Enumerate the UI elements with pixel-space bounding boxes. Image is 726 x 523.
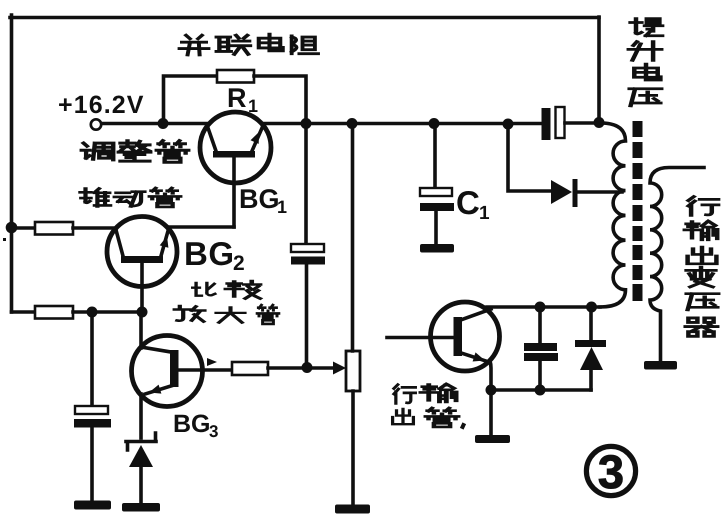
label parallel resistor 并联电阻 — [180, 34, 318, 55]
node junction rail x434 — [429, 118, 440, 129]
wire line output emitter — [490, 361, 491, 390]
wire R1 left branch — [164, 76, 218, 123]
node junction rail/R1 left — [158, 118, 169, 129]
wire rail right of coupling cap — [565, 121, 601, 125]
node junction x599 rail — [594, 117, 605, 128]
node junction rail x352 — [347, 118, 358, 129]
wire BG3 base to resistor — [202, 368, 232, 372]
wire +16.2V rail left — [102, 122, 209, 126]
transformer secondary winding — [650, 168, 704, 363]
node junction x307 — [302, 362, 313, 373]
stray mark comma after label — [460, 422, 466, 429]
svg-text:1: 1 — [248, 96, 258, 116]
label line output tube 行输出管 — [393, 384, 459, 427]
potentiometer arrow — [333, 362, 346, 375]
wire capacitor down to junction — [305, 264, 309, 367]
wire zener to ground — [139, 467, 143, 504]
transistor BG2 driver tube — [107, 217, 177, 313]
wire C1 branch down — [433, 123, 437, 188]
transformer core dashes — [633, 121, 643, 301]
diode damper — [575, 307, 606, 390]
wire row1 left — [12, 226, 36, 230]
wire R1 right branch — [254, 76, 306, 123]
wire BG1 base to BG2 collector — [168, 225, 234, 229]
svg-text:BG: BG — [173, 410, 211, 438]
svg-text:BG: BG — [184, 235, 235, 272]
ground pot — [335, 505, 370, 514]
svg-text:1: 1 — [479, 203, 490, 224]
wire row1 to BG2 — [73, 226, 116, 230]
diode zener BG3 emitter — [126, 433, 156, 467]
potentiometer — [346, 351, 360, 391]
wire main rail middle — [262, 122, 542, 126]
svg-text:3: 3 — [209, 422, 218, 441]
wire C1 to ground — [434, 211, 438, 245]
capacitor electrolytic left — [74, 406, 111, 428]
label adjustment tube 调整管 — [82, 141, 189, 163]
transistor BG3 comparison amplifier — [132, 336, 203, 407]
wire primary bottom lead to collector row — [487, 305, 600, 309]
wire row2 — [73, 310, 142, 314]
wire BG3 emitter down — [139, 394, 143, 438]
label line output transformer 行输出变压器 — [685, 197, 718, 337]
wire top border — [10, 16, 599, 20]
svg-text:C: C — [456, 184, 480, 221]
svg-text:2: 2 — [233, 252, 245, 275]
resistor row2 — [35, 306, 73, 319]
resistor row1 — [35, 222, 73, 235]
capacitor damper — [524, 307, 558, 390]
node +16.2V input terminal — [91, 119, 101, 129]
transistor BG1 adjustment tube — [200, 112, 271, 227]
svg-text:BG: BG — [239, 184, 280, 214]
wire x92 down to capacitor — [90, 312, 94, 406]
wire left border — [10, 15, 14, 312]
label amplifier tube 放大管 — [175, 305, 279, 324]
node small arrow mark — [207, 358, 217, 366]
capacitor coupling top right — [542, 107, 565, 140]
wire row2 left corner — [12, 310, 36, 314]
ground C1 — [420, 244, 454, 253]
node junction emitter row x540 — [535, 385, 546, 396]
label boost voltage 提升电压 — [629, 19, 662, 106]
wire pot branch vertical — [351, 123, 355, 506]
ground secondary — [644, 361, 677, 370]
svg-text:+16.2V: +16.2V — [58, 91, 145, 119]
wire emitter to ground — [489, 390, 493, 436]
node junction x92 row2 — [87, 307, 98, 318]
transistor line output tube — [387, 302, 500, 371]
label driver tube 推动管 — [80, 188, 180, 207]
stray mark left edge — [3, 238, 6, 241]
wire diode to transformer tap — [577, 190, 622, 194]
wire resistor to pot arrow — [268, 366, 334, 370]
resistor R1 — [217, 70, 254, 83]
node junction x540 bottom row — [535, 302, 546, 313]
svg-text:R: R — [227, 83, 247, 113]
label comparison 比较 — [193, 281, 260, 299]
resistor BG3 base — [232, 362, 268, 375]
svg-text:1: 1 — [277, 197, 287, 217]
capacitor C1 — [420, 188, 454, 211]
node junction x593 bottom row — [586, 302, 597, 313]
node junction rail x306 — [301, 118, 312, 129]
ground line output emitter — [475, 435, 510, 443]
node junction left border row1 — [6, 222, 18, 234]
wire right border drop — [597, 17, 601, 121]
svg-text:3: 3 — [598, 445, 624, 498]
node junction emitter row x491 — [486, 385, 497, 396]
transformer primary winding — [600, 123, 626, 307]
diode boost rectifier — [551, 179, 578, 207]
capacitor electrolytic x307 — [291, 244, 325, 265]
wire capacitor to ground — [90, 427, 94, 501]
wire x508 branch down to diode — [508, 124, 551, 191]
wire x307 branch down — [304, 123, 308, 244]
figure number 3 — [586, 445, 635, 498]
wire BG2 base down to BG3 — [139, 312, 143, 348]
ground zener — [122, 503, 160, 512]
node junction rail x508 — [503, 119, 514, 130]
wire emitter row — [491, 388, 591, 392]
node junction x142 row2 — [137, 307, 148, 318]
ground left capacitor — [74, 501, 111, 510]
